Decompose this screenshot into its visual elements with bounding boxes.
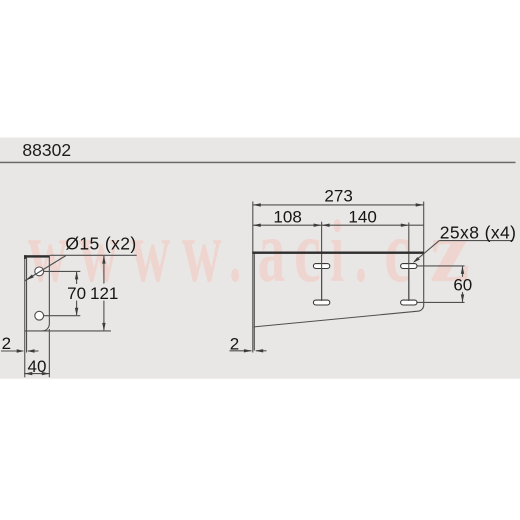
- plate right edge with rounded bottom corner: [418, 254, 424, 311]
- 70 dim line segments: [76, 272, 78, 284]
- slot column centerline 2: [408, 223, 410, 302]
- arrow 121 up: [102, 256, 105, 264]
- 25x8 leader diagonal: [414, 241, 439, 262]
- plate left edge outer line: [252, 252, 254, 353]
- bracket hole upper: [35, 267, 44, 276]
- 273 extension left: [252, 202, 254, 252]
- arrow dia15 leader: [26, 274, 34, 280]
- slot bottom-right: [401, 300, 417, 305]
- bracket left edge outer line: [24, 256, 26, 378]
- svg-text:.: .: [229, 207, 241, 299]
- svg-text:w: w: [182, 203, 222, 302]
- slot bottom-left: [313, 300, 329, 305]
- arrow 2-left pointing right: [17, 349, 25, 352]
- svg-text:2: 2: [2, 334, 11, 353]
- 70 extension upper: [44, 270, 81, 272]
- arrow 40 right: [42, 372, 50, 375]
- 108-140 dim line: [253, 224, 424, 226]
- centerline over top-right slot: [408, 263, 410, 301]
- arrow 70 down: [75, 308, 78, 316]
- slot top-left: [313, 264, 329, 269]
- 273 dim line: [253, 204, 424, 206]
- bracket left edge inner line: [26, 256, 28, 353]
- plate thick top edge: [252, 252, 424, 254]
- svg-text:60: 60: [453, 276, 472, 295]
- 60 extension lower: [417, 301, 465, 303]
- arrow 2-right pointing right: [244, 349, 252, 352]
- plate bottom slant edge: [254, 311, 418, 327]
- slot column centerline 1: [321, 222, 323, 301]
- grey panel background: [0, 138, 520, 379]
- 121 top extension underline: [50, 254, 137, 256]
- bracket top-left corner nub: [24, 255, 26, 259]
- arrow 40 left: [24, 372, 32, 375]
- arrow 273 right: [416, 203, 424, 206]
- arrow 121 down: [102, 323, 105, 331]
- 25x8 leader underline: [439, 240, 513, 242]
- svg-text:140: 140: [348, 208, 376, 227]
- arrow 60 down: [461, 294, 464, 302]
- 2 right dim shafts: [230, 350, 252, 352]
- 60 extension upper: [417, 265, 464, 267]
- arrow 140 right: [401, 224, 409, 227]
- dia15 leader diagonal: [25, 256, 66, 281]
- svg-text:25x8 (x4): 25x8 (x4): [440, 222, 517, 242]
- arrow 108 left: [253, 224, 261, 227]
- 121 dim line segments: [103, 256, 105, 284]
- centerline over top-left slot: [321, 263, 323, 301]
- arrow 2-right pointing left: [255, 349, 263, 352]
- slot top-right: [401, 264, 417, 269]
- svg-text:40: 40: [28, 357, 47, 376]
- arrow 273 left: [253, 203, 261, 206]
- svg-text:2: 2: [230, 335, 239, 354]
- svg-text:121: 121: [90, 284, 118, 303]
- svg-text:273: 273: [324, 186, 352, 205]
- arrow 60 up: [461, 266, 464, 274]
- arrow 25x8 leader: [413, 257, 420, 263]
- plate left edge inner line: [253, 254, 255, 351]
- bracket right edge with rounded bottom corner: [25, 257, 50, 331]
- svg-text:108: 108: [273, 208, 301, 227]
- 40 dim line: [24, 373, 50, 375]
- svg-text:w: w: [28, 203, 68, 302]
- 70 extension lower: [44, 315, 81, 317]
- arrow 2-left pointing left: [27, 349, 34, 352]
- svg-text:Ø15 (x2): Ø15 (x2): [65, 233, 136, 253]
- svg-text:88302: 88302: [22, 140, 71, 160]
- bracket thick top edge: [24, 255, 50, 257]
- 121 bottom extension: [42, 330, 111, 332]
- header rule: [0, 162, 516, 164]
- bracket hole lower: [35, 311, 44, 320]
- 2 left dim shafts: [1, 350, 23, 352]
- bracket 40 extension right: [48, 329, 50, 377]
- 60 dim line segments: [462, 267, 464, 277]
- arrow 140 left: [322, 224, 330, 227]
- watermark www.aci.cz: [28, 202, 470, 302]
- svg-text:70: 70: [67, 284, 86, 303]
- arrow 70 up: [75, 271, 78, 279]
- 273 extension right: [423, 202, 425, 254]
- arrow 108 right: [314, 224, 322, 227]
- svg-text:i: i: [330, 202, 344, 301]
